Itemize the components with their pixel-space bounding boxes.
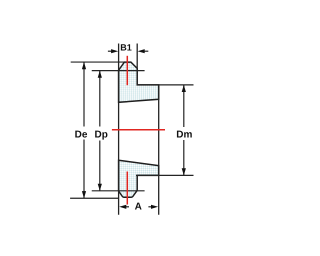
De top extension line	[71, 61, 131, 63]
Dm dimension line (upper segment)	[183, 85, 185, 127]
Dm bottom extension line / hub step edge	[136, 174, 194, 176]
Dp bottom extension line	[92, 190, 145, 192]
Dp arrowhead up	[98, 71, 102, 78]
Dm top extension line / hub step edge	[137, 84, 193, 86]
B1 right arrow (outside, pointing left)	[143, 50, 148, 52]
Dm dimension line (lower segment)	[183, 140, 185, 175]
right plate edge / B1 extension line	[136, 44, 138, 85]
sprocket lower half section (hub + plate + rounded tooth gap) fill	[119, 160, 159, 197]
Dp top extension line	[92, 70, 145, 72]
De dimension line (lower segment)	[83, 140, 85, 199]
red centerline vertical bottom (tooth axis)	[126, 172, 128, 205]
A right arrow (inside, pointing right)	[148, 206, 153, 208]
De dimension line (upper segment)	[83, 62, 85, 126]
De arrowhead down	[82, 191, 86, 198]
De arrowhead up	[82, 62, 86, 69]
red centerline horizontal (bore axis)	[112, 129, 165, 131]
svg-text:De: De	[75, 130, 88, 141]
sprocket upper half section (tooth + plate + hub) fill	[119, 62, 159, 102]
svg-text:A: A	[135, 202, 142, 213]
svg-text:Dm: Dm	[176, 130, 192, 141]
svg-text:B1: B1	[120, 43, 132, 53]
Dp dimension line (upper segment)	[99, 71, 101, 127]
B1 left arrow (outside, pointing right)	[108, 50, 113, 52]
De bottom extension line	[70, 197, 119, 199]
Dp dimension line (lower segment)	[99, 141, 101, 191]
Dp arrowhead down	[98, 184, 102, 191]
svg-text:Dp: Dp	[95, 130, 108, 141]
hub right edge / A extension line	[158, 85, 160, 215]
red centerline vertical top (tooth axis)	[126, 56, 128, 85]
Dm arrowhead down	[182, 168, 186, 175]
left extension line (B1 / A, plate left edge)	[118, 44, 120, 215]
A left arrow (inside, pointing left)	[124, 206, 129, 208]
Dm arrowhead up	[182, 85, 186, 92]
